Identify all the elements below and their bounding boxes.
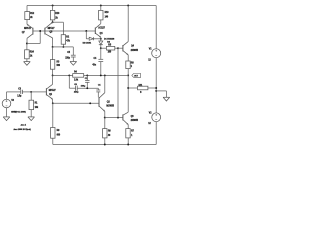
capacitor C3 (input coupling)	[20, 90, 22, 94]
wire Q4 emitter down	[100, 37, 102, 39]
transistor Q2 2N3055	[98, 97, 100, 107]
node output-A left (R3/Q1 collector)	[52, 74, 54, 76]
wire output-A right segment	[84, 74, 129, 76]
svg-text:.tran 1: .tran 1	[20, 123, 26, 126]
svg-text:V3: V3	[11, 100, 14, 102]
svg-text:Q5: Q5	[49, 32, 53, 34]
wire D2 node to C4	[100, 48, 102, 59]
node R7 at bottom rail	[127, 144, 129, 146]
wire ground stub	[156, 90, 166, 92]
wire R2 node to C5	[63, 46, 73, 48]
wire R9 to bottom rail	[52, 138, 54, 144]
node output at R8	[127, 74, 129, 76]
svg-text:2k: 2k	[55, 17, 58, 19]
svg-text:Q7: Q7	[22, 32, 26, 34]
svg-text:1k: 1k	[30, 55, 33, 57]
wire bottom rail	[53, 144, 156, 146]
svg-text:R7: R7	[131, 131, 135, 133]
wire Q5 collector down	[52, 38, 54, 47]
transistor Q4 AC127	[94, 28, 96, 35]
svg-text:R9: R9	[57, 130, 61, 132]
svg-text:220p: 220p	[74, 91, 79, 93]
wire R11 left	[128, 87, 137, 89]
ground below R1	[28, 116, 35, 118]
ground below R14	[24, 61, 31, 63]
svg-text:100: 100	[108, 51, 112, 53]
wire right rail middle (V1 to V2)	[155, 58, 157, 113]
voltage source V3 (signal)	[2, 99, 11, 108]
svg-text:1.5µ: 1.5µ	[17, 96, 22, 98]
capacitor C5	[71, 54, 76, 56]
svg-text:R2: R2	[66, 37, 70, 39]
wire Q2 collector up to output-A	[104, 75, 106, 92]
wire Q2 emitter down	[104, 111, 106, 117]
wire R12 to Q7 emitter	[26, 20, 28, 25]
voltage source V1	[152, 49, 161, 58]
wire Q1 emitter down	[52, 99, 54, 103]
resistor R14	[25, 50, 30, 59]
wire Q1 collector up to output-A	[52, 75, 54, 84]
transistor Q1 MPF27 (input)	[45, 88, 47, 95]
svg-text:10k: 10k	[35, 107, 39, 109]
wire D2 node to R5	[101, 47, 107, 49]
wire R8 to output node	[127, 69, 129, 76]
node R11 at right rail	[155, 87, 157, 89]
svg-text:C3: C3	[18, 88, 22, 90]
node Q7 collector / R14 junction	[26, 43, 28, 45]
node base bus junction at Q7/Q5	[39, 30, 41, 32]
resistor R5 (horizontal)	[106, 46, 114, 50]
svg-text:MPF27: MPF27	[48, 28, 56, 30]
wire C4 to output-A wire	[100, 62, 102, 76]
svg-text:Q2: Q2	[107, 101, 111, 103]
resistor R7	[126, 129, 130, 138]
node C4 at output-A	[100, 74, 102, 76]
capacitor C4	[98, 58, 103, 60]
node Q4 base on bus	[85, 30, 87, 32]
resistor R10	[99, 10, 103, 20]
voltage source V2	[152, 113, 161, 122]
diode D1 (horizontal)	[89, 37, 93, 40]
resistor R11 (horizontal load)	[138, 86, 148, 90]
svg-text:R3: R3	[57, 61, 61, 63]
node R10 at rail	[100, 5, 102, 7]
resistor R6	[103, 129, 107, 138]
wire V3 bottom to ground	[6, 108, 8, 117]
svg-text:1.8k: 1.8k	[74, 80, 79, 82]
resistor R3	[50, 60, 54, 70]
wire R11 right to rail	[148, 87, 156, 89]
ground below V3	[3, 116, 10, 118]
node Q4 emitter / diode row	[100, 38, 102, 40]
svg-text:100µ: 100µ	[81, 85, 86, 87]
svg-text:R12: R12	[30, 13, 35, 15]
svg-text:140: 140	[105, 15, 109, 18]
svg-text:R13: R13	[55, 13, 60, 15]
wire R7 to bottom rail	[127, 138, 129, 145]
svg-text:40: 40	[108, 134, 111, 137]
svg-text:C5: C5	[67, 52, 71, 54]
node R4 left / C6 branch	[68, 74, 70, 76]
wire R3 to output-A node	[52, 69, 54, 75]
svg-text:SINE(0 0.1 1000): SINE(0 0.1 1000)	[11, 112, 26, 114]
svg-text:R8: R8	[131, 62, 135, 64]
capacitor C2 branch from R4 right	[86, 75, 88, 80]
node R11 left on Q3 collector wire	[127, 87, 129, 89]
wire Q7 collector down	[26, 38, 28, 43]
wire R1 to ground	[30, 110, 32, 117]
node R6 at bottom rail	[104, 144, 106, 146]
svg-text:2k: 2k	[30, 17, 33, 19]
wire Q5 emitter node to R2 top	[53, 21, 64, 23]
wire C5 to ground	[72, 57, 74, 62]
net flag OUT	[132, 74, 141, 78]
ground below C5	[70, 61, 77, 63]
capacitor C1 to Q2 base	[97, 88, 99, 90]
svg-text:R10: R10	[105, 12, 110, 14]
transistor Q7 MPF27 (pnp, mirrored)	[32, 28, 34, 35]
svg-text:MPF27: MPF27	[24, 28, 32, 30]
transistor Q3 2N3055	[122, 114, 124, 120]
transistor Q5 MPF27 (pnp)	[44, 28, 46, 35]
svg-text:D2: D2	[107, 41, 110, 43]
svg-text:Q4: Q4	[131, 45, 135, 48]
wire feedback vertical (driver base to Q3 base)	[117, 48, 119, 117]
svg-text:MJ3055: MJ3055	[106, 106, 114, 108]
svg-text:1: 1	[131, 135, 133, 137]
svg-text:V1: V1	[149, 48, 152, 50]
svg-text:R14: R14	[30, 51, 35, 54]
wire driver base	[118, 47, 123, 49]
wire B (Q1 emitter to Q2 base)	[53, 102, 99, 104]
wire V3 top to input wire	[6, 92, 8, 99]
node wire B mid junction	[89, 102, 91, 104]
wire right rail lower (V2 to bottom rail)	[155, 122, 157, 145]
wire base bus Q7 to Q4	[33, 30, 95, 32]
node Q2 emitter / R6 / Q3 base wire	[104, 117, 106, 119]
node driver base / feedback wire	[117, 47, 119, 49]
svg-text:C4: C4	[94, 57, 98, 60]
svg-text:12: 12	[148, 59, 151, 61]
wire Q3 collector up to output node	[127, 75, 129, 112]
svg-text:R4: R4	[74, 71, 78, 74]
node Q2 collector at output-A	[104, 74, 106, 76]
wire R13 to rail	[52, 6, 54, 11]
wire Q3 emitter to R7	[127, 125, 129, 129]
svg-text:2N3055: 2N3055	[131, 120, 139, 122]
wire output-A left segment	[53, 74, 73, 76]
node R2 bottom / Q5 collector wire	[62, 46, 64, 48]
resistor R2	[61, 35, 65, 45]
svg-text:43n: 43n	[92, 64, 96, 67]
wire Q4 base node down to diode row	[85, 31, 87, 39]
node D2 bottom / R5 row	[100, 47, 102, 49]
svg-text:47k: 47k	[66, 39, 70, 42]
svg-text:Q3: Q3	[131, 116, 135, 118]
wire R14 top	[26, 44, 28, 50]
wire R12 to rail	[26, 6, 28, 12]
svg-text:1: 1	[131, 66, 133, 68]
svg-text:560: 560	[57, 65, 61, 67]
svg-text:C2: C2	[85, 78, 88, 80]
resistor R9	[51, 128, 55, 139]
wire R14 to ground	[26, 59, 28, 62]
wire input to Q1 base	[31, 91, 46, 93]
wire R9 down from Q1 emitter node	[52, 103, 54, 127]
node driver collector at rail	[127, 5, 129, 7]
wire Q2 emitter to Q3 base	[105, 117, 123, 119]
svg-text:Q4: Q4	[100, 32, 104, 35]
node C2 bottom on C6 wire	[86, 87, 88, 89]
svg-text:R1: R1	[35, 103, 39, 105]
resistor R4 (horizontal, in feedback)	[73, 74, 84, 78]
resistor R8	[126, 61, 130, 69]
svg-text:220p: 220p	[65, 57, 70, 59]
wire R2 bottom node	[62, 44, 64, 47]
node R13 at rail	[52, 5, 54, 7]
wire driver collector from rail	[127, 6, 129, 42]
svg-text:12: 12	[148, 123, 151, 125]
wire R5 to driver base node	[115, 47, 118, 49]
node feedback wire at Q3 base wire	[117, 117, 119, 119]
wire C6 branch down from R4 left	[68, 75, 70, 88]
capacitor C6 (series, vertical plates)	[69, 87, 75, 89]
node Q5 collector / R2A wire	[52, 46, 54, 48]
svg-text:V2: V2	[149, 112, 152, 114]
svg-text:MPF27: MPF27	[49, 90, 57, 92]
svg-text:R6: R6	[108, 131, 112, 133]
node ground stub at right rail	[155, 90, 157, 92]
svg-text:600: 600	[57, 135, 61, 137]
wire driver emitter to R8	[127, 55, 129, 61]
svg-text:8: 8	[140, 92, 142, 94]
transistor Q6 2N3055 (driver)	[122, 45, 124, 51]
resistor R13	[50, 10, 54, 20]
resistor R1	[30, 92, 32, 100]
resistor R12	[25, 12, 30, 20]
wire R10 to Q4 collector	[100, 20, 102, 24]
node R1 top / input	[30, 91, 32, 93]
wire R6 down	[104, 118, 106, 129]
wire D1 to Q4 emitter node	[94, 38, 101, 40]
node R4 right / C2 branch	[86, 74, 88, 76]
svg-text:2N3055: 2N3055	[131, 50, 139, 52]
svg-text:Q1: Q1	[49, 94, 53, 96]
wire base-tie to R14 node	[39, 31, 41, 44]
svg-text:C1: C1	[98, 85, 101, 87]
svg-text:D1 1N4148: D1 1N4148	[104, 37, 115, 40]
svg-text:AC127: AC127	[98, 27, 105, 30]
wire R6 to bottom rail	[104, 138, 106, 145]
wire R13 to Q5 emitter node	[52, 20, 54, 22]
wire R10 to rail	[100, 6, 102, 11]
wire R2 node to Q5 collector	[53, 46, 64, 48]
wire Q5 collector to R3	[52, 47, 54, 60]
wire right rail upper (V+ down to V1)	[155, 6, 157, 49]
node Q1 emitter / R9 / wire B	[52, 102, 54, 104]
wire V+ top rail	[27, 5, 156, 7]
ground right	[163, 96, 170, 98]
node Q5 emitter / R2 branch	[52, 21, 54, 23]
svg-text:.four 1000 20 V(out): .four 1000 20 V(out)	[13, 128, 31, 131]
svg-text:D2 OA91: D2 OA91	[83, 42, 92, 45]
wire C3 to R1 node	[22, 91, 31, 93]
